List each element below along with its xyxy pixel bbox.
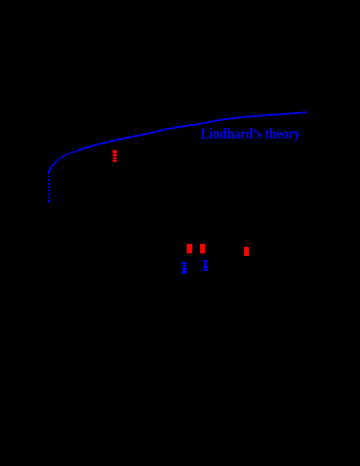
svg-text:Lindhard’s theory: Lindhard’s theory	[201, 126, 301, 142]
